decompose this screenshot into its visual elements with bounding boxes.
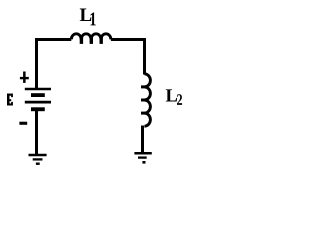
- ground left bar 1: [29, 154, 47, 157]
- battery E plate 3 (long): [25, 101, 51, 104]
- wire right vertical (top node to L2): [143, 38, 146, 75]
- battery E plate 2 (short, thick): [31, 93, 45, 97]
- minus sign: [19, 122, 27, 125]
- inductor L2 (4 humps): [144, 74, 150, 126]
- ground right bar 3: [142, 161, 145, 164]
- inductor L1 (4 humps): [71, 34, 111, 40]
- ground left bar 3: [36, 163, 40, 165]
- label L2: [166, 89, 177, 101]
- inductor L2 junction cusp 1: [141, 85, 148, 88]
- inductor L1 junction cusp 1: [80, 36, 83, 44]
- inductor L2 junction cusp 2: [141, 99, 148, 102]
- wire left vertical (top node down to battery +): [35, 38, 38, 90]
- inductor L1 junction cusp 2: [90, 36, 93, 44]
- battery E plate 1 (long, +): [25, 88, 51, 91]
- wire right vertical (L2 to ground): [141, 126, 144, 154]
- ground left bar 2: [33, 158, 43, 160]
- ground right bar 2: [138, 156, 147, 158]
- inductor L1 junction cusp 3: [100, 36, 103, 44]
- label L1: [80, 9, 92, 21]
- plus sign: [23, 72, 26, 83]
- inductor L2 junction cusp 3: [141, 112, 148, 115]
- wire battery to left ground: [35, 110, 38, 155]
- ground right bar 1: [134, 152, 151, 155]
- battery E plate 4 (short, thick): [31, 107, 45, 111]
- wire top horizontal left segment: [35, 38, 71, 41]
- wire top horizontal right segment: [111, 38, 146, 41]
- label E: [7, 94, 13, 106]
